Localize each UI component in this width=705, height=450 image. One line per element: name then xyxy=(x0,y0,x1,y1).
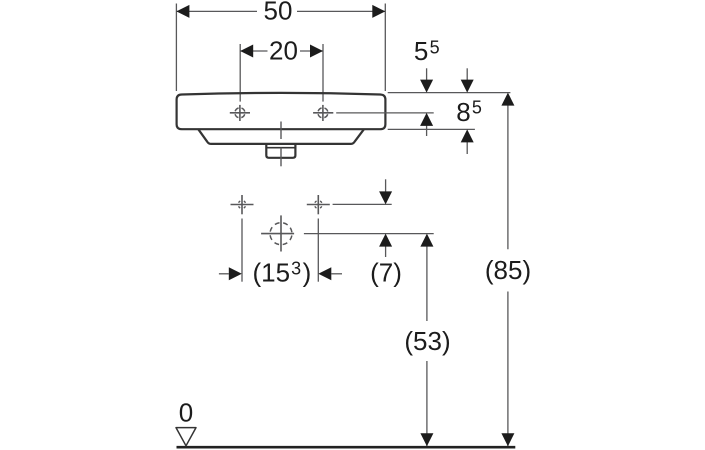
fixing hole left xyxy=(231,195,254,282)
floor line xyxy=(177,446,516,449)
svg-text:5: 5 xyxy=(472,97,482,117)
arrow (85) down xyxy=(501,433,514,446)
arrow 5.5 up xyxy=(420,113,433,126)
centerline of basin/drain xyxy=(280,122,282,167)
arrow (15.3) left-pointing xyxy=(318,267,331,280)
extension line left of 50 xyxy=(175,4,177,92)
wire: dim line 20 left segment xyxy=(240,50,267,52)
extension line right of 20 xyxy=(322,44,324,102)
extension line right of 50 xyxy=(384,4,386,92)
arrow 20 left xyxy=(240,45,253,58)
svg-text:(7): (7) xyxy=(370,258,402,288)
drain hole xyxy=(261,215,294,251)
extension line: tap hole centre to right xyxy=(336,112,434,114)
arrow (53) up xyxy=(420,234,433,247)
dimension (15.3) xyxy=(219,273,342,275)
svg-text:(85): (85) xyxy=(485,255,531,285)
basin outline: rim front view xyxy=(177,93,386,158)
arrow (7) up xyxy=(379,234,392,247)
dimension 50 xyxy=(176,4,385,92)
arrow 8.5 up xyxy=(461,129,474,142)
arrow 5.5 down xyxy=(420,80,433,93)
zero level triangle xyxy=(176,428,196,446)
arrow (53) down xyxy=(420,433,433,446)
tap hole left xyxy=(230,105,250,121)
basin lower bowl trapezoid xyxy=(199,130,364,144)
svg-text:50: 50 xyxy=(264,0,293,25)
svg-text:20: 20 xyxy=(269,35,298,65)
dimension (7) xyxy=(385,179,387,257)
wire: dim line 20 right segment xyxy=(300,50,323,52)
tap hole right xyxy=(313,105,333,121)
dimension (85) xyxy=(507,105,509,446)
dimension 5.5 xyxy=(426,68,428,136)
svg-text:(153): (153) xyxy=(253,258,312,288)
extension line: basin top to right xyxy=(388,92,511,94)
extension line: rim bottom to right xyxy=(388,128,475,130)
drain box xyxy=(266,145,295,158)
svg-text:8: 8 xyxy=(456,97,470,127)
arrow (7) down xyxy=(379,191,392,204)
wire: dim line 50 left segment xyxy=(176,10,257,12)
drain box inner line xyxy=(266,147,295,149)
arrow 50 left xyxy=(176,5,189,18)
wire: dim line 50 right segment xyxy=(297,10,385,12)
dimension 20 xyxy=(240,44,323,102)
arrow 50 right xyxy=(372,5,385,18)
dimension 8.5 xyxy=(466,68,468,154)
fixing hole right xyxy=(307,195,330,282)
arrow (85) up xyxy=(501,93,514,106)
extension line: drain centre to right xyxy=(304,233,434,235)
svg-text:5: 5 xyxy=(430,37,440,57)
arrow (15.3) right-pointing xyxy=(229,267,242,280)
extension line: fixing hole level to right xyxy=(333,203,392,205)
arrow 8.5 down xyxy=(461,80,474,93)
extension line left of 20 xyxy=(239,44,241,102)
svg-text:(53): (53) xyxy=(404,326,450,356)
svg-text:0: 0 xyxy=(179,397,193,427)
svg-text:5: 5 xyxy=(414,36,428,66)
arrow 20 right xyxy=(310,45,323,58)
dimension (53) xyxy=(426,246,428,446)
